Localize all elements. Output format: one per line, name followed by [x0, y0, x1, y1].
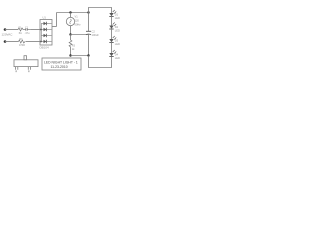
svg-text:LED3: LED3 — [115, 42, 120, 46]
bridge diode 4 (U1) — [41, 40, 52, 43]
svg-text:LED4: LED4 — [115, 56, 120, 60]
node N: AC neutral input terminal — [4, 40, 7, 43]
svg-text:.47u: .47u — [25, 32, 30, 35]
wire: V1 bottom down — [70, 26, 72, 35]
bridge rectifier box U1 — [40, 20, 52, 46]
AC plug drawing — [14, 56, 38, 72]
title block — [42, 58, 81, 70]
svg-text:100uF: 100uF — [92, 33, 100, 37]
wire: neutral to resistor — [5, 41, 19, 43]
svg-text:DB104: DB104 — [40, 46, 50, 50]
wire: mid node to cap bottom — [71, 34, 89, 36]
svg-text:120VAC: 120VAC — [2, 33, 14, 37]
wire: top node down to C2 — [88, 13, 90, 32]
wire: resistor to bridge — [26, 41, 41, 43]
LED D1 — [109, 10, 122, 26]
svg-text:V1: V1 — [75, 15, 79, 19]
svg-text:LED2: LED2 — [115, 28, 120, 32]
svg-text:LED1: LED1 — [115, 16, 120, 20]
fuse F1 on line input — [18, 28, 23, 31]
wire: cap to bridge — [31, 29, 40, 31]
svg-text:470R: 470R — [19, 44, 25, 47]
resistor R1 on neutral input — [19, 40, 26, 43]
svg-text:C2: C2 — [92, 30, 96, 34]
wire: bridge output to riser — [52, 26, 57, 28]
node L: AC line input terminal — [4, 28, 7, 31]
junction on bridge left bus at neutral input — [40, 41, 42, 43]
svg-text:11-23-2010: 11-23-2010 — [51, 65, 68, 69]
wire: rail to V1 — [70, 13, 72, 18]
capacitor C2 — [86, 30, 91, 32]
junction node at C2 leg bottom — [87, 54, 89, 56]
wire: top rail — [57, 12, 89, 14]
bridge diode 2 (U1) — [41, 28, 52, 31]
svg-text:.5A: .5A — [18, 32, 22, 35]
svg-text:60Hz: 60Hz — [75, 23, 82, 27]
junction node at V1 top — [69, 11, 71, 13]
LED D2 — [109, 23, 122, 40]
wire: return path down and right — [89, 56, 112, 68]
LED D3 — [109, 36, 122, 53]
wire: jog up from node to upper rail — [89, 8, 112, 13]
background — [0, 0, 120, 77]
svg-text:LED NIGHT LIGHT - 1: LED NIGHT LIGHT - 1 — [44, 60, 78, 64]
bridge diode 3 (U1) — [41, 34, 52, 37]
resistor R3 on V1 leg — [70, 35, 72, 41]
capacitor C1 on line input — [23, 29, 31, 31]
bridge diode 1 (U1) — [41, 22, 52, 25]
svg-text:120: 120 — [75, 19, 80, 23]
voltage source V1 — [66, 17, 74, 25]
wire: line input to fuse — [5, 29, 18, 31]
bridge internal left bus — [40, 24, 42, 42]
wire: lower rail — [71, 55, 89, 57]
wire: C2 bottom down to lower node — [88, 34, 90, 55]
junction node at C2 top — [87, 11, 89, 13]
junction node at R3 bottom — [69, 54, 71, 56]
wire: riser up to top rail — [56, 13, 58, 27]
junction on bridge left bus at line input — [40, 29, 42, 31]
junction node mid — [69, 33, 71, 35]
LED D4 — [109, 50, 122, 60]
